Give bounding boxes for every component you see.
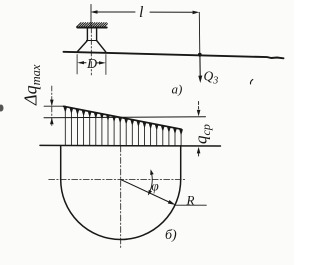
dimension D arrows: [77, 61, 105, 64]
dimension q_cp arrows: [197, 102, 201, 157]
dimension line l: [91, 10, 200, 14]
beam line: [64, 52, 284, 59]
angle arc phi: [148, 169, 154, 195]
svg-text:б): б): [165, 228, 177, 243]
extension line to load point: [198, 12, 201, 54]
svg-text:l: l: [139, 4, 144, 21]
q_cp average line: [44, 117, 206, 118]
horizontal centerline: [49, 179, 186, 181]
dimension D extension lines: [77, 55, 106, 75]
ceiling line: [77, 27, 106, 29]
leader line for R: [176, 204, 207, 206]
centerline of post: [90, 5, 92, 28]
U-shaped hull outline: [61, 146, 181, 240]
post neck: [87, 28, 97, 41]
svg-text:D: D: [86, 57, 97, 72]
radius line R: [121, 180, 176, 205]
node load point: [198, 53, 202, 57]
stray mark: [250, 80, 252, 84]
extension line top: [44, 105, 66, 107]
ceiling hatching: [77, 23, 108, 27]
post base trapezoid: [77, 41, 106, 52]
svg-text:φ: φ: [151, 178, 159, 193]
force arrow Q3: [198, 55, 202, 83]
edge blob: [0, 105, 4, 112]
load envelope: [64, 106, 182, 129]
waterline / top chord: [40, 144, 221, 147]
dimension dq_max line: [50, 86, 54, 126]
vertical centerline: [120, 146, 122, 250]
svg-text:а): а): [172, 82, 183, 97]
distributed load arrows: [63, 107, 183, 146]
svg-text:R: R: [186, 193, 195, 208]
